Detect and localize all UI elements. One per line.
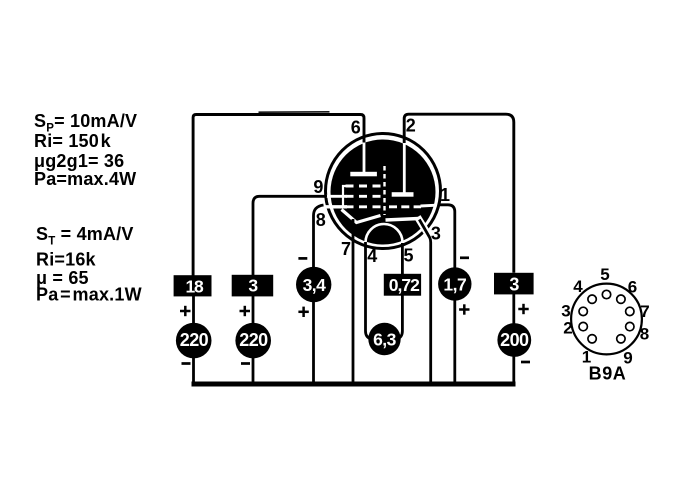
svg-text:3,4: 3,4 [303, 275, 327, 295]
svg-text:5: 5 [403, 246, 413, 266]
pentode grid g1 [346, 205, 382, 208]
wire pin2 triode anode to top-right rail down to 3mA box [404, 114, 514, 273]
pentode g3-to-cathode strap [343, 186, 347, 208]
wire pin8 g1 down to -3.4V source [314, 205, 324, 268]
wire 200V source to ground bus [512, 357, 515, 385]
voltage source 6,3 V (heater) [368, 323, 400, 355]
wire 220V source to ground bus [192, 358, 195, 385]
B9A pin 9 [617, 335, 625, 343]
svg-text:3: 3 [509, 274, 519, 294]
svg-text:9: 9 [313, 177, 323, 197]
pin3 lead clearance [418, 217, 435, 244]
wire 18mA box to 220V source [192, 296, 195, 324]
pentode anode a [350, 172, 377, 177]
svg-text:4: 4 [573, 277, 583, 296]
wire 3mA box to 200V source [512, 294, 515, 324]
svg-text:4: 4 [367, 246, 377, 266]
svg-text:7: 7 [640, 302, 649, 321]
B9A pin 5 [602, 290, 610, 298]
polarity - above 3,4 [298, 257, 307, 260]
pentode grid g2 [346, 195, 382, 198]
polarity - col2 [241, 362, 250, 365]
wire 1.7V source to ground bus [453, 300, 456, 384]
wire pin1 triode grid down to -1.7V source [438, 205, 455, 268]
wire pin6 anode to top-left rail down to 18mA box [193, 115, 364, 277]
voltage source 220 V (pentode anode) [176, 323, 212, 359]
polarity + col1 [180, 306, 191, 316]
svg-text:6: 6 [628, 278, 637, 297]
current box 0,72 A (heater) [384, 274, 421, 296]
svg-text:220: 220 [239, 330, 268, 350]
B9A base outline [571, 284, 642, 355]
svg-text:Ri= 150 k: Ri= 150 k [34, 131, 112, 151]
svg-text:18: 18 [185, 276, 204, 296]
svg-text:0,72: 0,72 [389, 275, 420, 295]
heater f between pins 4 and 5 [366, 224, 403, 243]
svg-text:220: 220 [180, 330, 209, 350]
wire 3mA g2 box to 220V source [252, 296, 255, 324]
voltage source 1,7 V (triode grid bias) [438, 267, 471, 300]
svg-text:200: 200 [500, 330, 529, 350]
svg-text:2: 2 [563, 319, 572, 338]
B9A pin 4 [588, 295, 596, 303]
svg-text:8: 8 [316, 210, 326, 230]
wire pin3 triode cathode to ground bus [419, 220, 430, 385]
svg-text:μg2g1= 36: μg2g1= 36 [34, 151, 124, 171]
svg-text:6,3: 6,3 [373, 330, 397, 350]
polarity - below 200 [521, 361, 530, 364]
wire pin4 heater to 6.3V source [366, 242, 371, 339]
current box 3 mA (triode anode) [494, 273, 534, 295]
B9A pin 2 [579, 322, 587, 330]
svg-text:B9A: B9A [589, 364, 627, 384]
B9A pin 8 [626, 322, 634, 330]
polarity - col1 [182, 362, 191, 365]
current box 3 mA (pentode g2) [232, 275, 274, 297]
wire pin9 g2 to 3mA box column [253, 196, 327, 275]
voltage source 3,4 V (pentode grid bias) [296, 267, 331, 302]
tube V1 envelope [326, 134, 441, 249]
polarity + col2 [240, 306, 251, 316]
pentode g2 lead (to pin 9) [326, 195, 347, 198]
voltage source 220 V (pentode g2) [235, 323, 271, 359]
pentode anode lead (pin 6, internal) [363, 142, 366, 174]
wire pin5 heater through 0.72A box to 6.3V source [398, 243, 403, 339]
svg-text:1: 1 [440, 185, 450, 205]
ground bus [192, 382, 516, 387]
svg-text:2: 2 [406, 116, 416, 136]
voltage source 200 V (triode anode) [497, 323, 531, 357]
svg-text:6: 6 [351, 118, 361, 138]
svg-text:Ri=16k: Ri=16k [36, 250, 97, 270]
B9A pin 3 [579, 307, 587, 315]
svg-text:3: 3 [431, 223, 441, 243]
triode grid g (to pin 1) [389, 205, 421, 208]
B9A pin 1 [588, 335, 596, 343]
wire pin7 cathode to ground bus [352, 219, 355, 384]
triode cathode k' [386, 219, 420, 221]
triode anode a' [392, 192, 414, 197]
svg-text:8: 8 [640, 325, 649, 344]
B9A pin 7 [626, 307, 634, 315]
pentode g1 lead (to pin 8) [324, 205, 348, 208]
svg-text:5: 5 [600, 265, 609, 284]
stray overdraw stroke on top rail (scan artifact) [259, 111, 330, 113]
polarity + below 3,4 [298, 307, 308, 317]
triode grid lead to pin 1 [421, 204, 437, 208]
wire 3.4V source to ground bus [312, 302, 315, 385]
svg-text:3: 3 [248, 276, 258, 296]
internal shield (dashed) [383, 166, 385, 215]
polarity - above 1,7 [460, 256, 469, 259]
svg-text:7: 7 [341, 239, 351, 259]
pentode grid g3 [346, 185, 382, 188]
svg-text:Pa = max.1W: Pa = max.1W [36, 285, 142, 305]
svg-text:Pa=max.4W: Pa=max.4W [34, 169, 136, 189]
svg-text:1,7: 1,7 [443, 275, 466, 295]
triode anode lead (pin 2, internal) [403, 142, 406, 194]
B9A pin 6 [617, 295, 625, 303]
pentode cathode k [342, 210, 381, 223]
svg-text:3: 3 [561, 302, 570, 321]
polarity + above 200 [518, 304, 528, 314]
wire second 220V source to ground bus [252, 358, 255, 385]
pentode data text [34, 111, 137, 189]
triode data text [36, 224, 142, 305]
current box 18 mA (pentode anode) [174, 275, 212, 296]
polarity + below 1,7 [459, 304, 469, 314]
